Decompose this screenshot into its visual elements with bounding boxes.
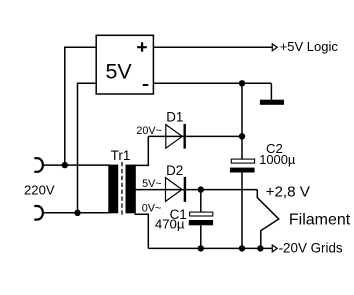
- diode D1: [166, 124, 185, 149]
- transformer Tr1 primary bar: [108, 165, 118, 214]
- svg-text:-20V Grids: -20V Grids: [279, 241, 343, 256]
- + terminal label: [137, 42, 147, 51]
- wire 20V~ tap step: [135, 136, 149, 165]
- 220V terminal bottom: [34, 206, 43, 220]
- svg-text:1000µ: 1000µ: [259, 152, 296, 167]
- ground: [260, 100, 284, 105]
- regulator U1 5V box: [96, 35, 153, 94]
- svg-text:470µ: 470µ: [155, 216, 185, 231]
- transformer Tr1 core dashed line: [121, 162, 123, 216]
- wire C1 top: [200, 190, 202, 213]
- capacitor C2 bottom plate: [230, 168, 255, 173]
- node junction minus rail: [239, 80, 245, 86]
- wire 0V~ tap step: [135, 214, 149, 248]
- svg-text:+5V Logic: +5V Logic: [280, 39, 339, 54]
- wire 20V~ through D1: [148, 135, 242, 137]
- node junction D2 cathode: [198, 186, 204, 192]
- svg-text:+2,8 V: +2,8 V: [266, 183, 311, 200]
- transformer Tr1 secondary bar: [126, 165, 136, 214]
- arrow -20V Grids: [272, 245, 277, 252]
- node junction filament rail: [257, 245, 263, 251]
- wire ground drop: [270, 83, 272, 99]
- node junction 220V bottom: [74, 210, 80, 216]
- wire 220V top to transformer: [44, 164, 110, 166]
- wire primary top feed to regulator: [65, 47, 96, 165]
- wire C1 bottom: [200, 225, 202, 248]
- svg-text:20V~: 20V~: [136, 125, 162, 137]
- arrow +5V Logic: [272, 44, 277, 51]
- svg-text:D2: D2: [166, 163, 183, 178]
- diode D2: [166, 177, 185, 202]
- svg-text:Filament: Filament: [289, 211, 351, 228]
- svg-text:D1: D1: [166, 110, 183, 125]
- svg-text:Tr1: Tr1: [111, 148, 131, 163]
- node junction C2 bottom rail: [239, 245, 245, 251]
- wire C2 bottom to rail: [241, 173, 243, 249]
- svg-text:5V~: 5V~: [142, 178, 162, 190]
- wire filament bracket: [257, 190, 279, 249]
- node junction D1 cathode: [239, 133, 245, 139]
- wire +5V output: [153, 46, 272, 48]
- wire minus rail: [153, 82, 271, 84]
- wire primary bottom feed to regulator: [78, 83, 97, 213]
- capacitor C1 bottom plate: [189, 220, 213, 225]
- wire bottom rail: [148, 247, 272, 249]
- svg-text:220V: 220V: [24, 182, 55, 197]
- - terminal label: [143, 84, 149, 86]
- svg-text:0V~: 0V~: [142, 203, 162, 215]
- capacitor C2 top plate: [231, 159, 254, 163]
- 220V terminal top: [34, 158, 43, 172]
- wire 220V bottom to transformer: [44, 212, 110, 214]
- svg-text:5V: 5V: [106, 60, 133, 84]
- wire node to C2 top: [241, 83, 243, 159]
- node junction 220V top: [62, 162, 68, 168]
- node junction C1 bottom: [198, 245, 204, 251]
- wire 5V~ through D2: [135, 189, 258, 191]
- capacitor C1 top plate: [190, 212, 213, 216]
